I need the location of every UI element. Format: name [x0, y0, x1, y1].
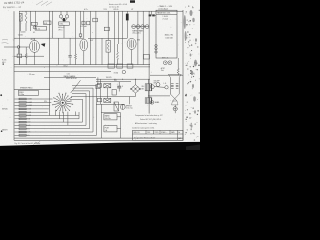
wire choke to V3 [126, 20, 128, 38]
wire comb riser b [92, 88, 94, 132]
variable capacitor VC1 stator [65, 15, 68, 18]
wire v x101.3 [100, 104, 102, 138]
wire drop x80.3 [79, 11, 81, 34]
wire C8 down [69, 57, 71, 65]
resistor R4 [25, 47, 27, 54]
wire drop x137.9 [137, 11, 139, 64]
wire long drop x49.6 [49, 11, 51, 115]
wire speaker feed [148, 95, 170, 97]
wire drop at x19 [18, 11, 20, 64]
wire drop x90.3 [89, 11, 91, 64]
meter M1 [120, 105, 125, 110]
speaker cone trapezoid [172, 101, 179, 105]
wire drop x122.6 [122, 11, 124, 64]
title block outline [133, 130, 184, 140]
wire right HT line [150, 74, 183, 76]
wire bottom border [14, 137, 183, 139]
wire drop x30.4 [29, 11, 31, 31]
title block divider v3 [169, 130, 171, 134]
valve V2 envelope [80, 39, 88, 51]
wire C8 up [69, 38, 71, 55]
capacitor comb C25 [19, 131, 26, 133]
rotary switch SW1 terminal dots [72, 104, 73, 105]
wire drop x114.5 [114, 11, 116, 64]
rectifier MR1 left node [130, 88, 132, 90]
resistor R6 [177, 58, 179, 68]
valve V1 grid dashes [32, 43, 34, 51]
terminal block TB2 [104, 126, 117, 132]
node margin dot [3, 63, 4, 64]
wire bias line [14, 71, 111, 73]
wire comb riser c [89, 91, 91, 129]
wire drop x143.2 [142, 11, 144, 64]
resistor R1 boxed [19, 13, 22, 21]
wire gang link right [66, 11, 68, 15]
capacitor C6 box [104, 27, 109, 31]
wire R2 lower [75, 59, 77, 65]
capacitor C4 box [87, 21, 90, 25]
box right of V3 [144, 55, 150, 60]
valve V1 envelope [30, 40, 40, 52]
wire comb riser f [78, 112, 80, 119]
resistor R5 [117, 44, 119, 52]
wire comb riser g [75, 112, 77, 116]
wire C12 up [118, 82, 120, 87]
wire rectifier bus [96, 78, 150, 80]
speaker LS1 cross [174, 108, 177, 110]
choke block upper hatched [104, 84, 111, 88]
capacitor comb C17 [19, 105, 26, 107]
wire pot feed [97, 77, 99, 84]
wire left border [13, 11, 15, 140]
title block divider v2 [153, 130, 155, 134]
capacitor comb C18 [19, 108, 26, 110]
wire into table [151, 11, 153, 15]
wire speaker bottom [174, 111, 176, 113]
wire contacts link [154, 86, 165, 89]
valve V2 grid dashes [81, 42, 83, 49]
resistor R3 boxed [106, 40, 110, 52]
wire comb riser e [82, 99, 84, 122]
valve V1 cathode lead [34, 52, 36, 64]
wire switch right feed 4 [72, 93, 86, 95]
wire drop x118.5 [118, 11, 120, 44]
wire comb row 9 [15, 124, 87, 126]
wire v x107.3 [106, 88, 108, 99]
capacitor C9 block [108, 64, 114, 68]
resistor block small lower [97, 98, 101, 101]
wire switch right feed 2 [73, 87, 93, 89]
capacitor C5 box [93, 18, 98, 22]
node contact K3 [165, 86, 168, 89]
wire hatchbox up [148, 79, 150, 84]
wire AVC line [14, 37, 83, 39]
wire comb row 7 [15, 118, 80, 120]
wire drop x35.5 [35, 11, 37, 26]
wire box down [63, 25, 65, 38]
wire switch down 3 [63, 112, 65, 122]
wire comb row 3 [15, 105, 51, 107]
socket S2 pin [169, 62, 170, 63]
capacitor pair left of table [149, 14, 152, 16]
transformer T1 wide box [35, 27, 47, 31]
wire R6 bottom [177, 73, 179, 76]
wire comb riser d [85, 94, 87, 126]
valve V3 envelope [127, 38, 136, 49]
resistor block small upper [97, 84, 101, 88]
transformer T3 winding hatches [171, 83, 174, 85]
wire comb row 5 [15, 111, 48, 113]
wire switch down 2 [59, 112, 61, 119]
wire C14 down [79, 36, 81, 38]
valve V1 anode lead [34, 38, 36, 40]
wire switch leader [71, 80, 81, 93]
valve V2 bottom lead [83, 51, 85, 65]
grid cap node V1 [17, 46, 20, 49]
wire v x100.3 [99, 79, 101, 104]
wire heater chain [132, 26, 150, 28]
wire TB2 link [117, 128, 121, 130]
table box outline [156, 10, 177, 58]
terminal E3 [155, 51, 157, 53]
wire comb row 4 [15, 108, 49, 110]
valve V2 top lead [83, 11, 85, 39]
capacitor comb C20 [19, 115, 26, 117]
choke L3 body [126, 14, 129, 21]
capacitor C7 box [17, 54, 22, 58]
node junction dots on rectifier bus [115, 79, 116, 80]
transformer T3 bell [168, 74, 181, 77]
wire comb row 2 [15, 101, 52, 103]
rectifier MR1 diamond [131, 85, 140, 94]
transformer hatch box upper [145, 84, 152, 91]
resistor R2 [75, 54, 77, 59]
wire R3 top [107, 11, 109, 40]
wire right border [182, 10, 184, 141]
switch contact K1 [150, 85, 154, 89]
wire h y96.5 [96, 96, 136, 98]
variable capacitor VC1 rotor [59, 15, 62, 18]
wire diamond up [135, 79, 137, 84]
wire switch down 1 [54, 110, 56, 116]
wire comb row 8 [15, 121, 83, 123]
capacitor comb C16 [19, 101, 26, 103]
field coil box [18, 91, 38, 96]
capacitor C12 electrolytic bars [117, 85, 121, 87]
wire TB top link [101, 112, 120, 114]
socket S1 pin [165, 62, 166, 63]
wire HT mid bus [14, 64, 150, 66]
rotary switch SW1 spokes [53, 94, 72, 113]
resistor block x112 [112, 90, 116, 96]
oscillator coil box [59, 22, 70, 25]
wire switch right feed 1 [72, 84, 97, 86]
capacitor comb C23 [19, 125, 26, 127]
wire field bus [14, 88, 50, 90]
wire v x120.6 [120, 113, 122, 138]
wire cone cross left [170, 94, 177, 101]
wire diamond down [135, 93, 137, 96]
wire comb riser a [96, 85, 98, 135]
wire comb row 11 [15, 131, 94, 133]
terminal E2 [155, 47, 157, 49]
wire drop x75.5 [75, 11, 77, 54]
wire converge right [65, 18, 67, 21]
potentiometer box [96, 85, 100, 89]
capacitor comb C15 [19, 98, 26, 100]
wire gang link left [60, 11, 62, 15]
wire switch right feed 5 [71, 96, 96, 98]
rotary switch SW1 hub [60, 100, 65, 105]
capacitor comb C26 [19, 134, 26, 136]
terminal block TB1 [104, 114, 117, 120]
valve V3 bottom lead [131, 50, 133, 65]
wire screen line [14, 55, 44, 57]
rectifier MR1 center dot [135, 88, 136, 89]
wire grid lead V1 [4, 46, 29, 48]
node earth dot [1, 130, 3, 132]
choke block tall [114, 102, 119, 111]
transformer hatch box lower [145, 98, 152, 103]
wire v x129.5 [129, 97, 131, 105]
caption checkmark [34, 141, 41, 144]
wire top HT bus [19, 10, 183, 12]
wire speaker stub [174, 105, 176, 107]
wire anode line [88, 37, 127, 39]
wire cone cross right [173, 94, 180, 101]
transformer T3 left limb [169, 77, 171, 94]
switch contact K2 [156, 83, 160, 87]
wire TB1 link [117, 116, 121, 118]
speaker LS1 magnet [173, 107, 177, 111]
socket S2 [168, 61, 172, 65]
inductor L1 aerial coil [25, 11, 27, 12]
wire switch right feed 3 [73, 90, 90, 92]
wire drop x102 [101, 38, 103, 64]
wire main HT drop x149.1 [148, 11, 150, 113]
wire earth bus [14, 66, 150, 68]
capacitor C10 block [117, 64, 123, 68]
valve V3 grid dashes [129, 41, 131, 48]
capacitor C11 block [127, 64, 133, 68]
choke block lower hatched [104, 98, 111, 102]
capacitor C3 box [82, 21, 85, 25]
capacitor C14 small [79, 34, 82, 37]
wire R1 down [20, 21, 22, 31]
rotary switch SW1 hub pin [62, 102, 64, 104]
jack J2 pin [152, 102, 153, 103]
wire comb row 12 [15, 134, 97, 136]
capacitor comb C19 [19, 111, 26, 113]
capacitor comb C21 [19, 118, 26, 120]
wire comb row 10 [15, 128, 90, 130]
jack J2 [150, 101, 154, 105]
wire h y81.7 [96, 81, 131, 83]
socket S1 [163, 61, 167, 65]
capacitor C2 trimmer box [44, 21, 52, 24]
wire drop x58.5 [58, 38, 60, 64]
black scan bar bottom [0, 142, 200, 150]
table divider [156, 14, 177, 16]
node circle above gang [33, 26, 36, 29]
label V1 pointer [41, 43, 46, 47]
wire switch right feed 6 [70, 98, 83, 100]
title block divider h [133, 133, 184, 135]
title block divider v1 [145, 130, 147, 134]
transformer T3 right limb [178, 77, 180, 94]
capacitor C1 box [31, 22, 37, 25]
rectifier MR1 right node [139, 88, 141, 90]
wire drop x95.9 [95, 11, 97, 64]
terminal E1 [155, 44, 157, 46]
capacitor comb C22 [19, 121, 26, 123]
wire bottom rail [14, 139, 183, 141]
choke L3 lead [126, 11, 128, 13]
wire h y104.3 [96, 103, 125, 105]
capacitor comb C24 [19, 128, 26, 130]
wire R3 down [107, 52, 109, 65]
wire hatchbox link [148, 91, 150, 98]
wire converge left [61, 18, 64, 21]
ink blot top center [130, 0, 135, 3]
wire comb row 1 [15, 98, 53, 100]
wire switch top line [44, 76, 96, 78]
wire C7 down [18, 58, 20, 65]
capacitor C8 bars [68, 55, 71, 57]
wire switch down 4 [67, 112, 69, 126]
heater lamp circles [132, 25, 136, 29]
rectifier MR1 diagonals [133, 86, 139, 92]
inductor L2 slug [63, 18, 65, 21]
wire C12 down [118, 88, 120, 92]
wire comb row 6 [15, 115, 80, 117]
jack J1 [122, 70, 125, 73]
wire drop x52.7 [52, 11, 54, 38]
wire grid cap drop [18, 48, 20, 54]
node margin dot2 [0, 94, 2, 96]
